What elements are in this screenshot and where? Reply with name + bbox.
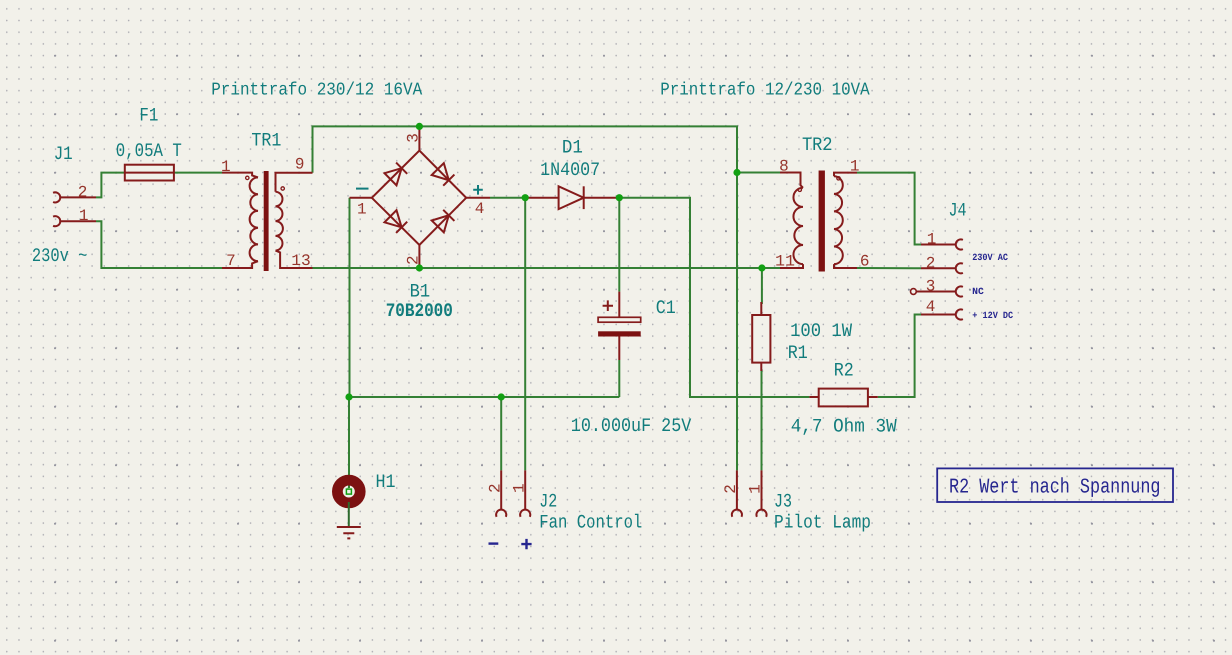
H1 wire end square: [346, 489, 351, 494]
junction D1 anode / J2 pin1: [522, 194, 529, 201]
svg-text:1: 1: [511, 483, 529, 493]
wire D1 cathode to R2 left: [618, 198, 809, 397]
svg-text:R1: R1: [788, 342, 808, 364]
svg-text:11: 11: [775, 252, 795, 270]
mounting hole H1: [337, 480, 360, 503]
diode D1: [525, 186, 619, 209]
svg-text:Printtrafo 12/230 10VA: Printtrafo 12/230 10VA: [660, 81, 870, 101]
svg-text:1: 1: [850, 158, 860, 176]
svg-text:4: 4: [926, 298, 936, 316]
svg-text:8: 8: [779, 158, 789, 176]
svg-text:J3: J3: [774, 490, 792, 512]
J2 minus mark: [489, 542, 499, 544]
C1 plus mark: [603, 300, 613, 311]
resistor R1: [752, 302, 770, 371]
svg-text:D1: D1: [562, 136, 583, 158]
svg-text:H1: H1: [376, 471, 396, 493]
svg-text:Pilot Lamp: Pilot Lamp: [774, 512, 871, 534]
junction bottom rail / B1 pin2: [416, 264, 423, 271]
svg-text:J4: J4: [949, 200, 967, 222]
TR1 core bar: [264, 171, 269, 271]
svg-text:3: 3: [405, 133, 423, 143]
TR1 polarity dot left: [246, 176, 249, 179]
wire D1 anode junction down to J2 pin1: [524, 198, 526, 471]
connector J4: [917, 239, 963, 319]
B1 minus mark: [356, 188, 369, 190]
svg-text:10.000uF 25V: 10.000uF 25V: [571, 415, 692, 437]
wire lower rail junction to J2 pin2: [500, 397, 502, 470]
resistor R2: [809, 389, 877, 407]
TR2 polarity dot right: [837, 177, 840, 180]
junction lower rail / J2 pin2: [498, 393, 505, 400]
wire junction to TR2 pin11: [762, 267, 780, 269]
J4 pin3 no-connect circle: [911, 289, 917, 295]
svg-text:Fan Control: Fan Control: [539, 512, 642, 534]
wire bottom rail junction to R1 top: [761, 268, 763, 304]
junction top rail / B1 pin3: [416, 123, 423, 130]
TR2 polarity dot left: [798, 188, 801, 191]
B1 plus mark: [473, 185, 483, 195]
svg-text:C1: C1: [656, 297, 676, 319]
svg-text:B1: B1: [410, 281, 431, 303]
svg-text:2: 2: [487, 483, 505, 493]
transformer TR2: [780, 173, 857, 269]
junction bottom rail / R1: [758, 264, 765, 271]
wire R1 bottom to J3 pin1: [761, 369, 763, 470]
svg-text:F1: F1: [139, 105, 158, 127]
wire J1 pin1 to TR1 pin7: [96, 221, 222, 268]
wire junction to TR2 pin8: [737, 172, 780, 174]
connector J1: [53, 192, 96, 226]
svg-text:100 1W: 100 1W: [790, 320, 853, 342]
svg-text:2: 2: [405, 255, 423, 265]
wire D1 cathode junction to C1 plus: [618, 198, 620, 292]
wire B1 pin1 drop to lower rail: [349, 198, 351, 397]
svg-text:J2: J2: [539, 490, 557, 512]
wire B1 pin4 to D1 anode: [490, 197, 526, 199]
svg-text:6: 6: [860, 253, 870, 271]
svg-text:4: 4: [475, 200, 485, 218]
svg-text:TR2: TR2: [802, 134, 833, 156]
svg-text:TR1: TR1: [251, 130, 281, 152]
note box R2 Wert nach Spannung: [937, 468, 1173, 502]
svg-text:13: 13: [291, 252, 311, 270]
wire lower rail H1 to C1 minus: [350, 396, 620, 398]
wire R2 right to J4 pin4: [878, 315, 921, 398]
TR2 core bar: [819, 171, 825, 272]
svg-text:1N4007: 1N4007: [540, 159, 600, 181]
fuse F1: [125, 165, 174, 181]
junction lower rail / H1: [345, 393, 352, 400]
svg-text:1: 1: [357, 201, 367, 219]
svg-text:1: 1: [747, 484, 765, 494]
wire TR2 pin1 to J4 pin1: [857, 173, 921, 245]
svg-text:230v ~: 230v ~: [32, 245, 88, 267]
svg-text:70B2000: 70B2000: [386, 300, 453, 322]
ground symbol: [348, 502, 350, 527]
svg-text:230V AC: 230V AC: [972, 252, 1008, 263]
junction TR2 pin8: [733, 169, 740, 176]
svg-text:R2: R2: [834, 360, 854, 382]
svg-text:1: 1: [221, 158, 231, 176]
wire lower rail to H1: [348, 397, 350, 488]
wire J1 pin2 to fuse F1: [96, 173, 125, 198]
TR1 polarity dot right: [281, 187, 284, 190]
svg-text:2: 2: [78, 183, 88, 201]
svg-text:3: 3: [926, 277, 936, 295]
svg-text:J1: J1: [54, 143, 73, 165]
wire TR2 pin6 to J4 pin2: [857, 267, 921, 269]
wire TR1 pin9 top rail to TR2 pin8 and J3 pin2: [313, 126, 738, 470]
junction D1 cathode / C1: [616, 194, 623, 201]
wire fuse F1 to TR1 pin1: [174, 172, 222, 174]
wire C1 minus to lower rail: [618, 360, 620, 397]
connector J3: [732, 470, 767, 516]
bridge rectifier B1: [350, 129, 491, 268]
svg-text:1: 1: [927, 230, 937, 248]
svg-text:9: 9: [295, 155, 305, 173]
svg-text:4,7 Ohm 3W: 4,7 Ohm 3W: [791, 416, 898, 438]
svg-text:0,05A T: 0,05A T: [116, 140, 182, 162]
J2 plus mark: [521, 539, 531, 549]
wire TR1 pin13 bottom rail to TR2 pin11: [313, 267, 762, 269]
svg-text:7: 7: [226, 252, 236, 270]
svg-text:NC: NC: [972, 286, 984, 297]
svg-text:2: 2: [926, 254, 936, 272]
connector J2: [496, 470, 530, 516]
transformer TR1: [222, 173, 313, 268]
svg-text:R2 Wert nach Spannung: R2 Wert nach Spannung: [949, 476, 1161, 499]
svg-text:Printtrafo 230/12 16VA: Printtrafo 230/12 16VA: [211, 81, 422, 101]
svg-text:1: 1: [79, 207, 89, 225]
capacitor C1: [598, 292, 641, 360]
svg-text:+ 12V DC: + 12V DC: [972, 310, 1013, 321]
svg-text:2: 2: [722, 484, 740, 494]
